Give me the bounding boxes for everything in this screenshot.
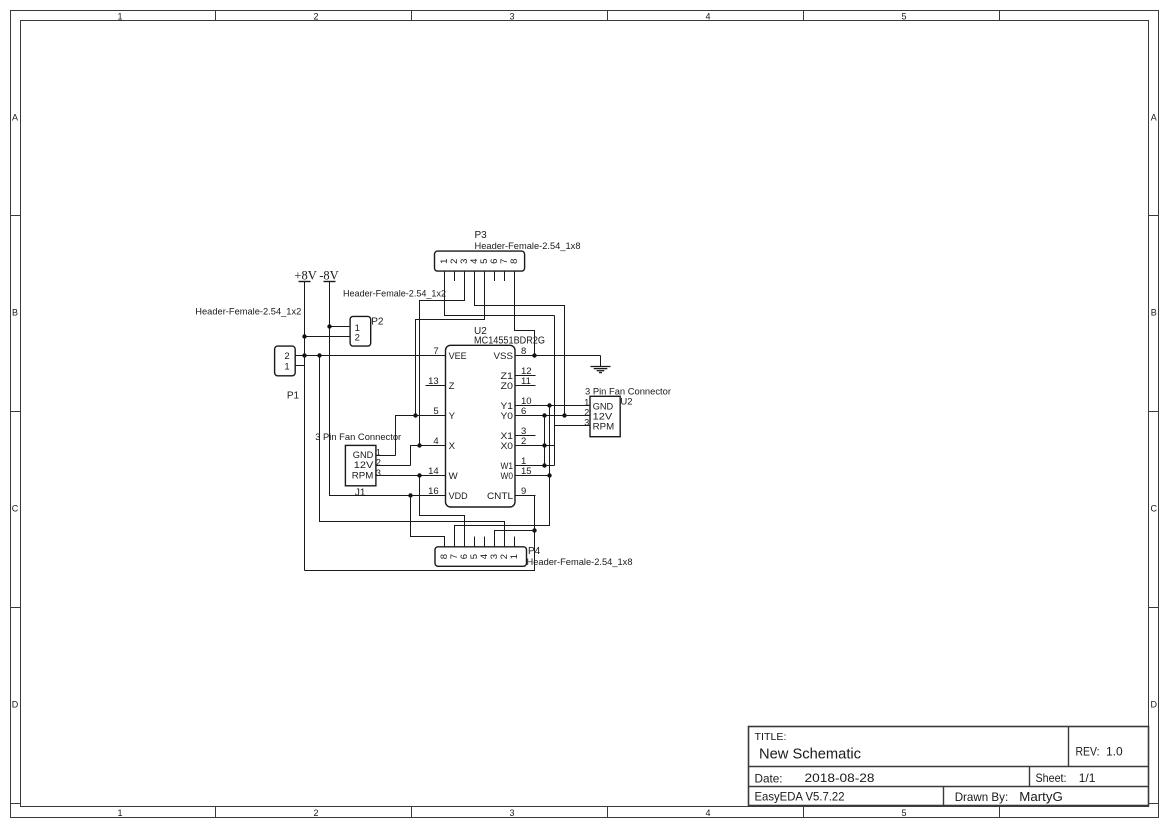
row label A	[12, 112, 1157, 122]
right fan reference label U2	[620, 396, 632, 407]
svg-text:1: 1	[117, 808, 122, 818]
wire -8V rail to VDD	[327, 282, 425, 498]
svg-text:VEE: VEE	[449, 351, 467, 362]
U2 pin 4 (X)	[426, 436, 456, 452]
svg-text:C: C	[12, 503, 19, 513]
P4 pin number 4	[479, 554, 490, 559]
svg-text:8: 8	[509, 259, 520, 264]
P2 reference label	[371, 316, 384, 327]
svg-text:Header-Female-2.54_1x8: Header-Female-2.54_1x8	[475, 241, 581, 252]
wire Y1 to W0 to P4.7	[455, 406, 550, 547]
U2 pin 1 (W1)	[501, 456, 536, 472]
wire P3.4 to Y0	[475, 271, 567, 418]
Date field	[755, 771, 875, 785]
wire CNTL stub to P1.1	[295, 365, 304, 367]
U2 pin 2 (X0)	[501, 436, 536, 452]
svg-text:REV:: REV:	[1076, 746, 1100, 758]
wire Y0 net (U2.6 to fan.2)	[536, 413, 591, 417]
P4 pin number 8	[439, 554, 450, 559]
U2 pin 16 (VDD)	[426, 486, 468, 502]
wire X net (J1.2 to U2.4)	[411, 446, 426, 466]
row tick y=411	[11, 411, 1159, 413]
P3 pin number 2	[449, 259, 460, 264]
U2 value label MC14551BDR2G	[474, 336, 545, 347]
svg-text:U2: U2	[620, 396, 632, 407]
svg-text:3: 3	[376, 468, 381, 478]
svg-text:CNTL: CNTL	[487, 491, 514, 502]
svg-text:W: W	[449, 471, 459, 482]
wire CNTL branch to P4.3	[495, 531, 535, 547]
P3 pin number 7	[499, 259, 510, 264]
U2 pin 15 (W0)	[501, 466, 536, 482]
wire W1 net	[536, 463, 555, 467]
svg-text:1: 1	[117, 11, 122, 21]
right fan title 3 Pin Fan Connector	[585, 386, 671, 397]
title block frame	[749, 727, 1149, 806]
column label 5	[901, 11, 906, 818]
column tick x=215	[215, 11, 217, 818]
P4 value label	[527, 557, 633, 568]
svg-text:2: 2	[355, 333, 360, 344]
Drawn By field	[955, 790, 1063, 804]
svg-text:3: 3	[584, 418, 589, 428]
P4 pin number 6	[459, 554, 470, 559]
P4 pin number 7	[449, 554, 460, 559]
svg-text:1: 1	[584, 398, 589, 408]
svg-text:6: 6	[521, 406, 526, 417]
U2 pin 13 (Z)	[426, 376, 455, 392]
row tick y=215	[11, 215, 1159, 217]
svg-text:VDD: VDD	[449, 491, 468, 502]
svg-text:Header-Female-2.54_1x8: Header-Female-2.54_1x8	[527, 557, 633, 568]
P3 pin number 4	[469, 259, 480, 264]
wire +8V rail vertical	[302, 282, 306, 571]
svg-text:16: 16	[428, 486, 439, 497]
row label B	[12, 307, 1157, 317]
right fan pin 1 GND	[570, 398, 613, 413]
P3 pin 2 stub	[454, 271, 456, 281]
wire P3.8 to VSS	[515, 271, 535, 355]
P2 value label	[343, 288, 446, 299]
svg-text:RPM: RPM	[352, 470, 374, 481]
svg-text:D: D	[1151, 699, 1158, 709]
svg-text:Y: Y	[449, 411, 456, 422]
svg-text:4: 4	[705, 808, 710, 818]
REV field	[1076, 744, 1124, 758]
wire fan U2.3 RPM branch	[555, 425, 571, 427]
wire CNTL riser	[305, 496, 537, 571]
right fan pin 2 12V	[570, 408, 613, 423]
column tick x=999	[999, 11, 1001, 818]
P4 stub pin	[484, 537, 486, 547]
svg-text:1.0: 1.0	[1106, 744, 1123, 758]
svg-text:EasyEDA V5.7.22: EasyEDA V5.7.22	[755, 790, 845, 803]
netflag -8V	[319, 268, 338, 282]
column tick x=803	[803, 11, 805, 818]
P1 pin 1	[284, 361, 304, 372]
column label 2	[313, 11, 318, 818]
P4 pin number 3	[489, 554, 500, 559]
svg-text:2: 2	[313, 11, 318, 21]
svg-text:MartyG: MartyG	[1019, 790, 1063, 804]
wire P3.3 to X	[417, 271, 464, 448]
ground symbol	[591, 356, 611, 373]
svg-text:8: 8	[521, 346, 526, 357]
wire W to P4.6	[420, 476, 465, 547]
svg-text:P3: P3	[475, 230, 488, 241]
P3 pin number 1	[439, 259, 450, 264]
U2 pin 12 (Z1)	[501, 366, 536, 382]
svg-text:1: 1	[284, 361, 289, 372]
svg-text:C: C	[1151, 503, 1158, 513]
P4 stub pin	[474, 537, 476, 547]
U2 pin 7 (VEE)	[426, 346, 467, 362]
wire W net (J1.3 to U2.14)	[396, 473, 426, 477]
EasyEDA version field	[755, 790, 845, 803]
U2 pin 10 (Y1)	[501, 396, 536, 412]
wire Y net (J1.1 to U2.5)	[396, 416, 426, 456]
svg-text:A: A	[1151, 112, 1157, 122]
svg-text:1/1: 1/1	[1079, 771, 1096, 785]
svg-text:B: B	[1151, 307, 1157, 317]
svg-text:-8V: -8V	[319, 268, 338, 282]
svg-text:VSS: VSS	[494, 351, 514, 362]
U2 pin 8 (VSS)	[494, 346, 536, 362]
U2 pin 14 (W)	[426, 466, 459, 482]
svg-text:Header-Female-2.54_1x2: Header-Female-2.54_1x2	[195, 306, 301, 317]
P3 reference label	[475, 230, 488, 241]
svg-text:3: 3	[509, 808, 514, 818]
svg-text:2: 2	[584, 408, 589, 418]
J1 pin 3 RPM	[352, 468, 396, 481]
column tick x=411	[411, 11, 413, 818]
svg-text:3 Pin Fan Connector: 3 Pin Fan Connector	[315, 432, 401, 443]
wire VEE net (P1.2 to U2.7)	[302, 353, 425, 357]
column label 1	[117, 11, 122, 818]
P3 value label	[475, 241, 581, 252]
P1 value label	[195, 306, 301, 317]
svg-text:TITLE:: TITLE:	[755, 731, 787, 743]
U2 pin 9 (CNTL)	[487, 486, 536, 502]
J1 reference label	[355, 487, 366, 498]
connector P4 body	[435, 547, 527, 567]
J1 title 3 Pin Fan Connector	[315, 432, 401, 443]
svg-text:+8V: +8V	[294, 268, 316, 282]
svg-text:1: 1	[376, 448, 381, 458]
wire W0 net	[536, 473, 552, 477]
wire VDD to P4.8	[411, 496, 445, 547]
svg-text:7: 7	[433, 346, 438, 357]
title text New Schematic	[759, 746, 861, 763]
P3 pin 7 stub	[504, 271, 506, 281]
svg-text:New Schematic: New Schematic	[759, 746, 861, 763]
svg-text:Y0: Y0	[501, 411, 514, 422]
connector P3 body	[435, 251, 525, 271]
svg-text:5: 5	[901, 808, 906, 818]
svg-text:3: 3	[509, 11, 514, 21]
svg-text:J1: J1	[355, 487, 366, 498]
P3 pin number 3	[459, 259, 470, 264]
svg-text:13: 13	[428, 376, 439, 387]
column label 4	[705, 11, 710, 818]
svg-text:4: 4	[705, 11, 710, 21]
P3 pin number 8	[509, 259, 520, 264]
svg-text:A: A	[12, 112, 18, 122]
P3 pin number 6	[489, 259, 500, 264]
svg-text:Sheet:: Sheet:	[1036, 772, 1067, 785]
wire P3.5 to Y	[413, 271, 484, 418]
P2 pin 1	[330, 323, 360, 334]
row tick y=607	[11, 607, 1159, 609]
svg-text:2: 2	[521, 436, 526, 447]
row label C	[12, 503, 1158, 513]
svg-text:4: 4	[433, 436, 438, 447]
J1 pin 1 GND	[353, 448, 396, 461]
P4 pin number 2	[499, 554, 510, 559]
connector P2 body	[350, 316, 371, 346]
P4 pin number 5	[469, 554, 480, 559]
column tick x=607	[607, 11, 609, 818]
U2 pin 6 (Y0)	[501, 406, 536, 422]
connector J1 body	[345, 445, 376, 485]
U2 reference label	[474, 326, 487, 337]
svg-text:Date:: Date:	[755, 772, 783, 785]
svg-text:P2: P2	[371, 316, 384, 327]
svg-text:X0: X0	[501, 441, 514, 452]
wire X0 net	[536, 443, 555, 447]
wire node C vertical	[554, 316, 556, 466]
svg-text:Drawn By:: Drawn By:	[955, 791, 1009, 804]
Sheet field	[1036, 771, 1096, 785]
svg-text:D: D	[12, 699, 19, 709]
right fan pin 3 RPM	[570, 418, 614, 433]
svg-text:B: B	[12, 307, 18, 317]
P4 reference label	[528, 546, 541, 557]
svg-text:Z: Z	[449, 381, 455, 392]
U2 pin 5 (Y)	[426, 406, 456, 422]
wire VEE to P4.2	[320, 356, 505, 547]
svg-text:5: 5	[901, 11, 906, 21]
wire Y1 net (U2.10 to fan.1)	[536, 403, 591, 407]
svg-text:2: 2	[313, 808, 318, 818]
svg-text:1: 1	[509, 554, 520, 559]
U2 pin 3 (X1)	[501, 426, 536, 442]
P2 pin 2	[305, 333, 360, 344]
connector P1 body	[275, 346, 296, 376]
row label D	[12, 699, 1158, 709]
U2 pin 11 (Z0)	[501, 376, 536, 392]
P4 stub pin	[514, 537, 516, 547]
svg-text:5: 5	[433, 406, 438, 417]
svg-text:Header-Female-2.54_1x2: Header-Female-2.54_1x2	[343, 288, 446, 299]
row tick y=803	[11, 803, 1159, 805]
wire Y0/X0/W1 tie	[544, 416, 546, 466]
connector U2 (fan) body	[590, 396, 620, 436]
column label 3	[509, 11, 514, 818]
P4 pin number 1	[509, 554, 520, 559]
P3 pin 6 stub	[494, 271, 496, 281]
svg-text:15: 15	[521, 466, 532, 477]
svg-text:2: 2	[376, 458, 381, 468]
svg-text:9: 9	[521, 486, 526, 497]
svg-text:Z0: Z0	[501, 381, 514, 392]
wire P3.1 to node C	[445, 271, 555, 315]
P3 pin number 5	[479, 259, 490, 264]
P1 reference label	[287, 390, 300, 401]
svg-text:2018-08-28: 2018-08-28	[805, 771, 875, 785]
P1 pin 2	[284, 351, 304, 362]
svg-text:X: X	[449, 441, 456, 452]
netflag +8V	[294, 268, 316, 282]
svg-text:P1: P1	[287, 390, 300, 401]
wire VSS to ground	[532, 353, 600, 357]
svg-text:14: 14	[428, 466, 439, 477]
svg-text:11: 11	[521, 376, 531, 387]
title block TITLE label	[755, 731, 787, 743]
IC U2 MC14551BDR2G body	[446, 345, 516, 507]
svg-text:W0: W0	[501, 471, 514, 482]
J1 pin 2 12V	[354, 458, 411, 471]
svg-text:RPM: RPM	[593, 422, 615, 433]
